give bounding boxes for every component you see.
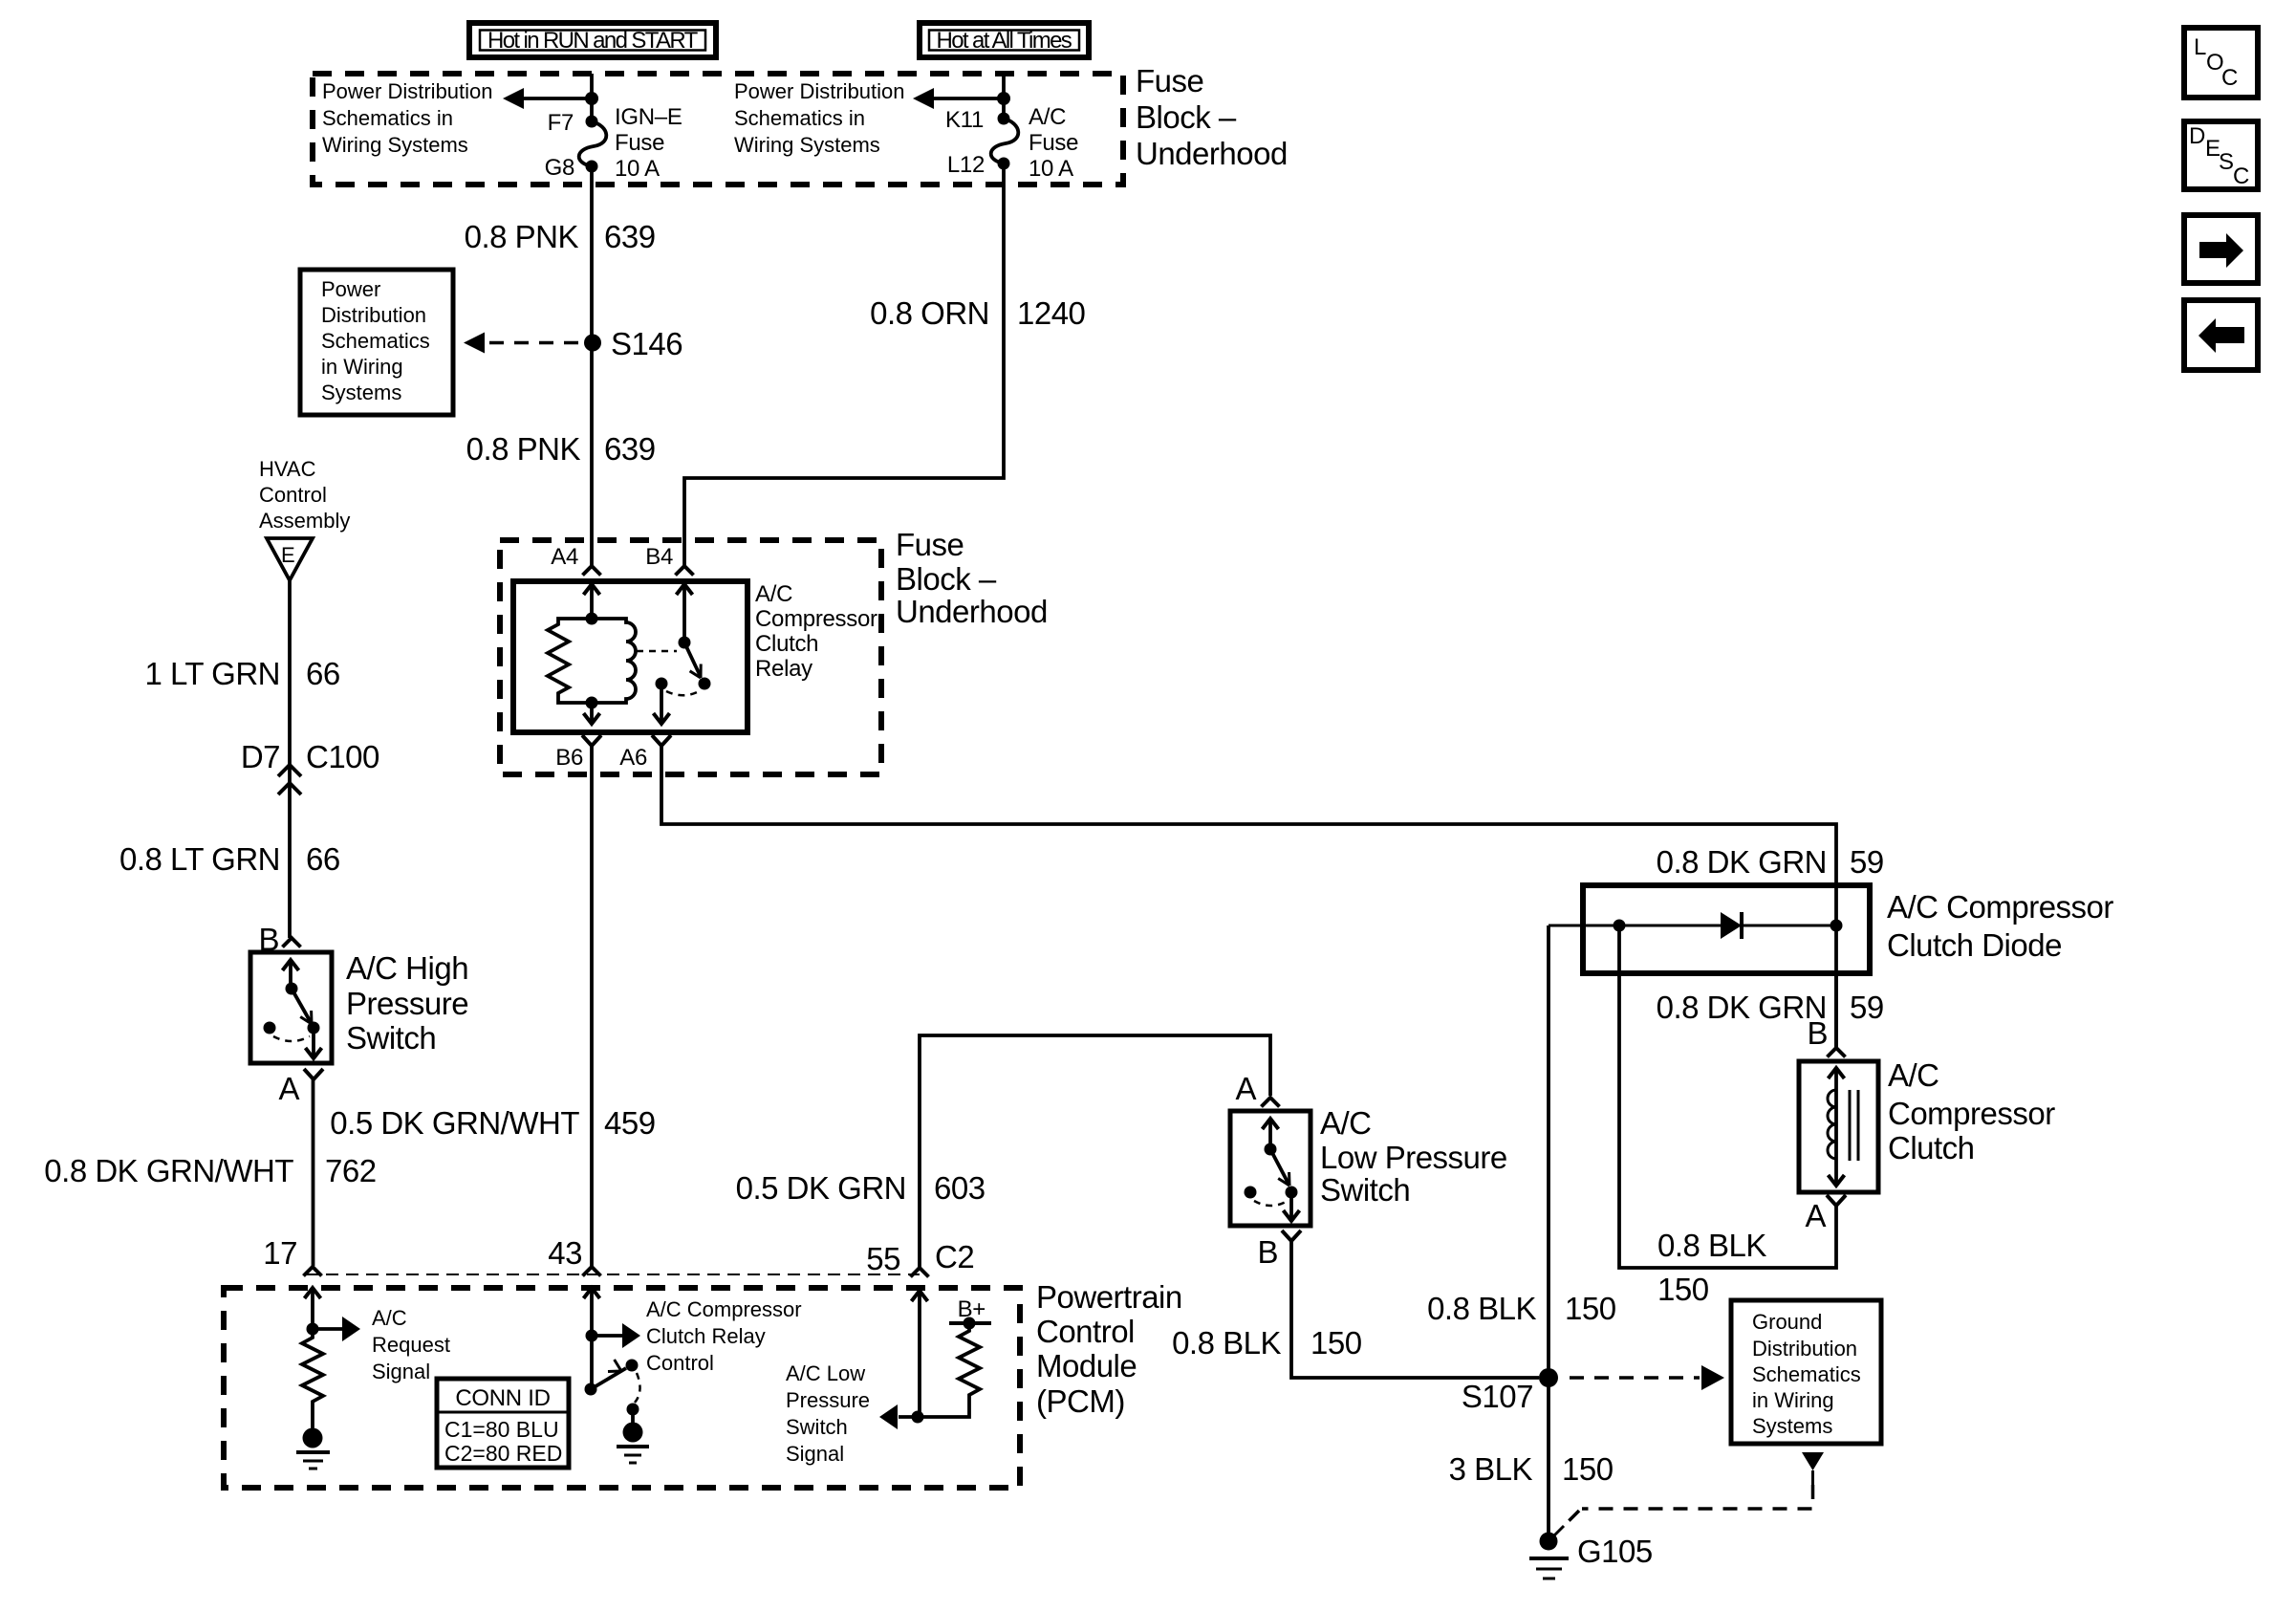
terminal A of compressor clutch bbox=[1805, 1195, 1846, 1233]
svg-text:762: 762 bbox=[325, 1153, 377, 1188]
svg-text:C100: C100 bbox=[306, 739, 379, 774]
A/C Compressor Clutch coil bbox=[1799, 1061, 1878, 1192]
fuse block underhood (relay) dashed outline bbox=[500, 540, 881, 774]
svg-text:B: B bbox=[1257, 1234, 1278, 1270]
svg-text:Powertrain: Powertrain bbox=[1036, 1279, 1182, 1315]
svg-text:Clutch Relay: Clutch Relay bbox=[646, 1324, 766, 1348]
label Powertrain Control Module (PCM) bbox=[1036, 1279, 1182, 1419]
svg-text:Wiring Systems: Wiring Systems bbox=[322, 133, 468, 157]
note A/C Request Signal bbox=[372, 1306, 450, 1383]
relay resistor (parallel with coil) bbox=[548, 619, 592, 703]
PCM relay control driver: arrow, junction, switch to ground bbox=[584, 1288, 650, 1463]
svg-text:A: A bbox=[278, 1071, 299, 1106]
label A/C Low Pressure Switch bbox=[1320, 1105, 1507, 1208]
wire label 0.8 BLK | 150 (diode ground wire) bbox=[1427, 1291, 1616, 1326]
wire from diode left terminal to S107 and G105 bbox=[1547, 925, 1550, 1533]
svg-text:0.8 BLK: 0.8 BLK bbox=[1657, 1228, 1766, 1263]
svg-text:Schematics: Schematics bbox=[1752, 1362, 1861, 1386]
svg-text:Systems: Systems bbox=[321, 381, 401, 404]
HVAC connector triangle E bbox=[267, 538, 313, 580]
svg-text:0.8 DK GRN: 0.8 DK GRN bbox=[1657, 844, 1827, 880]
svg-text:Switch: Switch bbox=[786, 1415, 848, 1439]
svg-text:Schematics in: Schematics in bbox=[734, 106, 865, 130]
PCM connector thin dashed line bbox=[306, 1274, 920, 1275]
svg-text:B6: B6 bbox=[555, 745, 583, 771]
icon button right arrow bbox=[2184, 215, 2258, 283]
wire: hot in run/start feed down to fuse F7 bbox=[585, 74, 598, 121]
wire 0.8 BLK 150 from clutch A left and up to diode bbox=[1619, 925, 1836, 1268]
svg-text:Signal: Signal bbox=[372, 1360, 430, 1383]
value label A/C Fuse 10 A bbox=[1029, 104, 1078, 182]
svg-text:Pressure: Pressure bbox=[786, 1388, 870, 1412]
svg-text:Ground: Ground bbox=[1752, 1310, 1822, 1334]
wire label 0.5 DK GRN | 603 bbox=[736, 1170, 986, 1206]
wire label 0.8 DK GRN | 59 (below diode) bbox=[1657, 990, 1884, 1025]
pin 43 bbox=[548, 1235, 600, 1276]
CONN ID table bbox=[437, 1379, 569, 1468]
svg-text:A/C: A/C bbox=[372, 1306, 407, 1330]
pin A4 bbox=[551, 544, 600, 576]
svg-text:Underhood: Underhood bbox=[896, 594, 1048, 629]
wire 0.5 DK GRN/WHT 459 from B6 down to PCM pin 43 bbox=[590, 746, 594, 1266]
svg-text:G105: G105 bbox=[1577, 1534, 1653, 1569]
note Power Distribution Schematics in Wiring Systems (right) bbox=[734, 79, 905, 157]
svg-text:A/C: A/C bbox=[1888, 1057, 1939, 1093]
svg-text:Compressor: Compressor bbox=[755, 606, 877, 632]
header box Hot at All Times bbox=[920, 23, 1089, 57]
label Fuse Block - Underhood (relay block) bbox=[896, 527, 1048, 629]
svg-text:Underhood: Underhood bbox=[1136, 136, 1288, 171]
pin F7 bbox=[548, 110, 574, 136]
svg-text:B4: B4 bbox=[645, 544, 673, 570]
icon button DESC bbox=[2184, 121, 2258, 189]
wire 0.8 ORN 1240 from L12 down, left, down to B4 bbox=[684, 163, 1004, 566]
dashed arrow from S146 to power distribution box bbox=[464, 333, 581, 354]
svg-text:F7: F7 bbox=[548, 110, 574, 136]
header box Hot in RUN and START bbox=[469, 23, 716, 57]
label A/C High Pressure Switch bbox=[346, 950, 468, 1056]
relay U1: A/C Compressor Clutch Relay box bbox=[513, 581, 747, 732]
pin A6 bbox=[619, 735, 671, 771]
wire label 0.8 BLK / 150 (clutch ground wire) bbox=[1657, 1228, 1766, 1307]
svg-text:Clutch: Clutch bbox=[755, 631, 818, 657]
pin L12 bbox=[947, 152, 985, 178]
splice S146 bbox=[584, 326, 682, 361]
splice S107 bbox=[1462, 1368, 1558, 1414]
svg-text:Request: Request bbox=[372, 1333, 450, 1357]
svg-text:Control: Control bbox=[646, 1351, 714, 1375]
svg-text:HVAC: HVAC bbox=[259, 457, 316, 481]
svg-text:10 A: 10 A bbox=[615, 156, 660, 182]
svg-text:Block –: Block – bbox=[896, 561, 997, 597]
pin B4 bbox=[645, 544, 693, 576]
svg-text:in Wiring: in Wiring bbox=[321, 355, 403, 379]
svg-text:in Wiring: in Wiring bbox=[1752, 1388, 1834, 1412]
svg-text:K11: K11 bbox=[945, 107, 984, 133]
fuse IGN-E 10A (pins F7/G8) bbox=[579, 116, 607, 173]
svg-text:150: 150 bbox=[1565, 1291, 1616, 1326]
pin B6 bbox=[555, 735, 601, 771]
svg-text:Schematics in: Schematics in bbox=[322, 106, 453, 130]
svg-text:0.8 ORN: 0.8 ORN bbox=[870, 295, 989, 331]
svg-text:43: 43 bbox=[548, 1235, 582, 1271]
wire label 0.8 ORN | 1240 bbox=[870, 295, 1085, 331]
fuse A/C 10A (pins K11/L12) bbox=[991, 113, 1019, 170]
relay label A/C Compressor Clutch Relay bbox=[755, 581, 877, 682]
svg-text:Fuse: Fuse bbox=[1029, 130, 1078, 156]
svg-text:C2=80 RED: C2=80 RED bbox=[444, 1441, 562, 1466]
dashed arrow S107 to ground distribution box bbox=[1570, 1365, 1724, 1390]
arrow to power distribution (right) bbox=[913, 88, 1004, 109]
HVAC Control Assembly label bbox=[259, 457, 350, 533]
pin 55 bbox=[866, 1241, 928, 1277]
wire label 0.5 DK GRN/WHT | 459 bbox=[330, 1105, 655, 1141]
svg-text:Compressor: Compressor bbox=[1888, 1096, 2055, 1131]
svg-text:0.5 DK GRN: 0.5 DK GRN bbox=[736, 1170, 906, 1206]
svg-text:S: S bbox=[2219, 149, 2234, 175]
relay switch dashed throw arc bbox=[666, 690, 701, 695]
wire label 1 LT GRN | 66 bbox=[145, 656, 340, 691]
pin 17 bbox=[263, 1235, 321, 1276]
svg-text:1 LT GRN: 1 LT GRN bbox=[145, 656, 281, 691]
relay switch arm with arrowhead bbox=[684, 642, 711, 690]
svg-text:Fuse: Fuse bbox=[1136, 63, 1203, 98]
svg-text:639: 639 bbox=[604, 431, 656, 467]
PCM B+ pullup resistor bbox=[899, 1296, 991, 1417]
connector C100 pin D7 (double chevron) bbox=[278, 765, 301, 795]
A/C High Pressure Switch bbox=[250, 952, 332, 1063]
svg-text:Power Distribution: Power Distribution bbox=[322, 79, 493, 103]
svg-text:Relay: Relay bbox=[755, 656, 812, 682]
svg-text:66: 66 bbox=[306, 841, 340, 877]
wire 0.8 DK GRN/WHT 762 down to PCM pin 17 bbox=[312, 1079, 315, 1266]
svg-text:150: 150 bbox=[1657, 1272, 1709, 1307]
wire 0.5 DK GRN 603 from pin 55 up and right to low pressure switch A bbox=[920, 1035, 1270, 1268]
relay coil-to-switch dashed linkage bbox=[637, 650, 677, 653]
ground G105 bbox=[1529, 1526, 1653, 1578]
svg-text:D7: D7 bbox=[241, 739, 280, 774]
svg-text:Hot in RUN and START: Hot in RUN and START bbox=[487, 28, 699, 54]
svg-text:C: C bbox=[2221, 65, 2238, 91]
dashed route from ground distribution box to G105 bbox=[1562, 1485, 1813, 1528]
svg-text:3 BLK: 3 BLK bbox=[1449, 1451, 1533, 1487]
svg-text:A/C Compressor: A/C Compressor bbox=[646, 1297, 802, 1321]
relay switch: B4 input to pivot bbox=[677, 584, 693, 649]
svg-text:C2: C2 bbox=[935, 1239, 974, 1274]
wire 0.8 PNK 639 from G8 down to splice S146 and on to A4 bbox=[590, 166, 594, 566]
svg-text:Power Distribution: Power Distribution bbox=[734, 79, 905, 103]
svg-text:S107: S107 bbox=[1462, 1379, 1533, 1414]
svg-text:S146: S146 bbox=[611, 326, 682, 361]
svg-text:150: 150 bbox=[1562, 1451, 1614, 1487]
icon button LOC bbox=[2184, 28, 2258, 98]
svg-text:CONN ID: CONN ID bbox=[455, 1385, 550, 1411]
svg-text:17: 17 bbox=[263, 1235, 297, 1271]
svg-text:B: B bbox=[1807, 1015, 1828, 1051]
svg-text:Hot at All Times: Hot at All Times bbox=[937, 28, 1072, 54]
svg-text:0.8 PNK: 0.8 PNK bbox=[466, 431, 581, 467]
svg-text:Control: Control bbox=[259, 483, 327, 507]
box: Power Distribution Schematics in Wiring Systems bbox=[300, 270, 453, 415]
relay coil branch (A4 to B6): entry arrow bbox=[584, 584, 600, 625]
label A/C Compressor Clutch Diode bbox=[1887, 889, 2113, 963]
label A/C Compressor Clutch bbox=[1888, 1057, 2055, 1165]
wire from diode junction down to clutch B (already drawn vertical 1921) bbox=[1834, 973, 1838, 1047]
terminal B of high pressure switch bbox=[258, 922, 300, 957]
svg-text:G8: G8 bbox=[545, 155, 574, 181]
svg-text:Fuse: Fuse bbox=[615, 130, 664, 156]
svg-text:10 A: 10 A bbox=[1029, 156, 1073, 182]
svg-text:Block –: Block – bbox=[1136, 99, 1237, 135]
arrow toward A/C Low Pressure Switch Signal note bbox=[879, 1404, 898, 1429]
fuse block underhood (top) dashed outline bbox=[313, 74, 1123, 185]
label D7 | C100 bbox=[241, 739, 379, 774]
svg-text:E: E bbox=[281, 543, 295, 567]
pin G8 bbox=[545, 155, 574, 181]
svg-text:603: 603 bbox=[934, 1170, 986, 1206]
wire from A6 right toward compressor clutch bbox=[661, 746, 1836, 1047]
note A/C Low Pressure Switch Signal bbox=[786, 1361, 870, 1466]
svg-text:0.8 PNK: 0.8 PNK bbox=[465, 219, 579, 254]
wire label 0.8 DK GRN/WHT | 762 bbox=[44, 1153, 376, 1188]
filled triangle below ground distribution box bbox=[1802, 1452, 1824, 1485]
wire 0.8 BLK 150 from switch B down and right to S107 bbox=[1291, 1241, 1539, 1378]
svg-text:Clutch Diode: Clutch Diode bbox=[1887, 927, 2062, 963]
svg-text:Distribution: Distribution bbox=[321, 303, 426, 327]
A/C Compressor Clutch Diode box bbox=[1583, 885, 1870, 973]
svg-text:Fuse: Fuse bbox=[896, 527, 964, 562]
svg-text:A: A bbox=[1805, 1198, 1826, 1233]
svg-text:Schematics: Schematics bbox=[321, 329, 430, 353]
wire label 3 BLK | 150 bbox=[1449, 1451, 1614, 1487]
svg-text:459: 459 bbox=[604, 1105, 656, 1141]
svg-text:1240: 1240 bbox=[1017, 295, 1086, 331]
svg-text:D: D bbox=[2189, 123, 2205, 149]
connector label C2 bbox=[935, 1239, 974, 1274]
svg-text:Pressure: Pressure bbox=[346, 986, 468, 1021]
svg-text:IGN–E: IGN–E bbox=[615, 104, 682, 130]
svg-text:Low Pressure: Low Pressure bbox=[1320, 1140, 1507, 1175]
svg-text:0.8 BLK: 0.8 BLK bbox=[1427, 1291, 1536, 1326]
wire label 0.8 LT GRN | 66 bbox=[119, 841, 340, 877]
diode symbol D1 bbox=[1721, 912, 1742, 939]
PCM low pressure switch signal input: arrow down to junction bbox=[912, 1291, 928, 1424]
svg-text:A/C High: A/C High bbox=[346, 950, 468, 986]
svg-text:Wiring Systems: Wiring Systems bbox=[734, 133, 880, 157]
wire label 0.8 BLK | 150 (switch B wire) bbox=[1172, 1325, 1362, 1361]
PCM A/C request input: arrow, junction, resistor to ground bbox=[296, 1288, 360, 1469]
svg-text:Distribution: Distribution bbox=[1752, 1337, 1857, 1361]
svg-text:0.8 DK GRN/WHT: 0.8 DK GRN/WHT bbox=[44, 1153, 293, 1188]
svg-text:L12: L12 bbox=[947, 152, 985, 178]
svg-text:A6: A6 bbox=[619, 745, 647, 771]
diode internal wire and terminals bbox=[1549, 920, 1843, 932]
svg-text:C1=80 BLU: C1=80 BLU bbox=[444, 1417, 559, 1442]
svg-text:66: 66 bbox=[306, 656, 340, 691]
svg-text:Switch: Switch bbox=[346, 1020, 436, 1056]
svg-text:Control: Control bbox=[1036, 1314, 1135, 1349]
svg-text:A/C: A/C bbox=[1029, 104, 1066, 130]
svg-text:59: 59 bbox=[1850, 990, 1884, 1025]
svg-text:0.8 DK GRN: 0.8 DK GRN bbox=[1657, 990, 1827, 1025]
svg-text:A/C: A/C bbox=[1320, 1105, 1372, 1141]
terminal A of low pressure switch bbox=[1235, 1071, 1279, 1107]
wire label 0.8 PNK | 639 (lower) bbox=[466, 431, 656, 467]
svg-text:639: 639 bbox=[604, 219, 656, 254]
svg-text:55: 55 bbox=[866, 1241, 900, 1276]
svg-text:0.8 LT GRN: 0.8 LT GRN bbox=[119, 841, 280, 877]
svg-text:A/C Low: A/C Low bbox=[786, 1361, 865, 1385]
label Fuse Block - Underhood (top) bbox=[1136, 63, 1288, 171]
terminal B of low pressure switch bbox=[1257, 1230, 1301, 1270]
svg-text:C: C bbox=[2233, 163, 2249, 189]
wire label 0.8 DK GRN | 59 (above diode) bbox=[1657, 844, 1884, 880]
svg-text:Power: Power bbox=[321, 277, 380, 301]
svg-text:Module: Module bbox=[1036, 1348, 1137, 1383]
svg-text:A4: A4 bbox=[551, 544, 578, 570]
svg-text:Clutch: Clutch bbox=[1888, 1130, 1975, 1165]
svg-text:Assembly: Assembly bbox=[259, 509, 350, 533]
svg-text:Switch: Switch bbox=[1320, 1172, 1410, 1208]
icon button left arrow bbox=[2184, 300, 2258, 370]
relay coil winding bbox=[592, 619, 636, 703]
svg-text:A/C Compressor: A/C Compressor bbox=[1887, 889, 2113, 925]
A/C Low Pressure Switch bbox=[1230, 1111, 1310, 1226]
svg-text:L: L bbox=[2194, 34, 2206, 60]
svg-text:Systems: Systems bbox=[1752, 1414, 1832, 1438]
wire label 0.8 PNK | 639 (upper) bbox=[465, 219, 656, 254]
svg-text:Signal: Signal bbox=[786, 1442, 844, 1466]
pin K11 bbox=[945, 107, 984, 133]
terminal B of compressor clutch bbox=[1807, 1015, 1845, 1057]
svg-text:A: A bbox=[1235, 1071, 1256, 1106]
terminal A of high pressure switch bbox=[278, 1069, 323, 1106]
PCM dashed outline bbox=[224, 1288, 1020, 1488]
svg-text:(PCM): (PCM) bbox=[1036, 1383, 1125, 1419]
svg-text:0.8 BLK: 0.8 BLK bbox=[1172, 1325, 1281, 1361]
relay switch common contact to A6 bbox=[654, 678, 670, 725]
svg-text:A/C: A/C bbox=[755, 581, 792, 607]
svg-text:0.5 DK GRN/WHT: 0.5 DK GRN/WHT bbox=[330, 1105, 579, 1141]
note Power Distribution Schematics in Wiring Systems (left) bbox=[322, 79, 493, 157]
relay coil output to B6 bbox=[584, 697, 600, 725]
box: Ground Distribution Schematics in Wiring Systems bbox=[1731, 1300, 1881, 1444]
wire 1 LT GRN 66 from HVAC to C100 bbox=[288, 580, 292, 938]
svg-text:150: 150 bbox=[1310, 1325, 1362, 1361]
value label IGN-E Fuse 10 A bbox=[615, 104, 682, 182]
wire: hot at all times feed down to fuse K11 bbox=[997, 74, 1010, 119]
arrow to power distribution (left) bbox=[503, 88, 592, 109]
svg-text:59: 59 bbox=[1850, 844, 1884, 880]
note A/C Compressor Clutch Relay Control bbox=[646, 1297, 802, 1375]
